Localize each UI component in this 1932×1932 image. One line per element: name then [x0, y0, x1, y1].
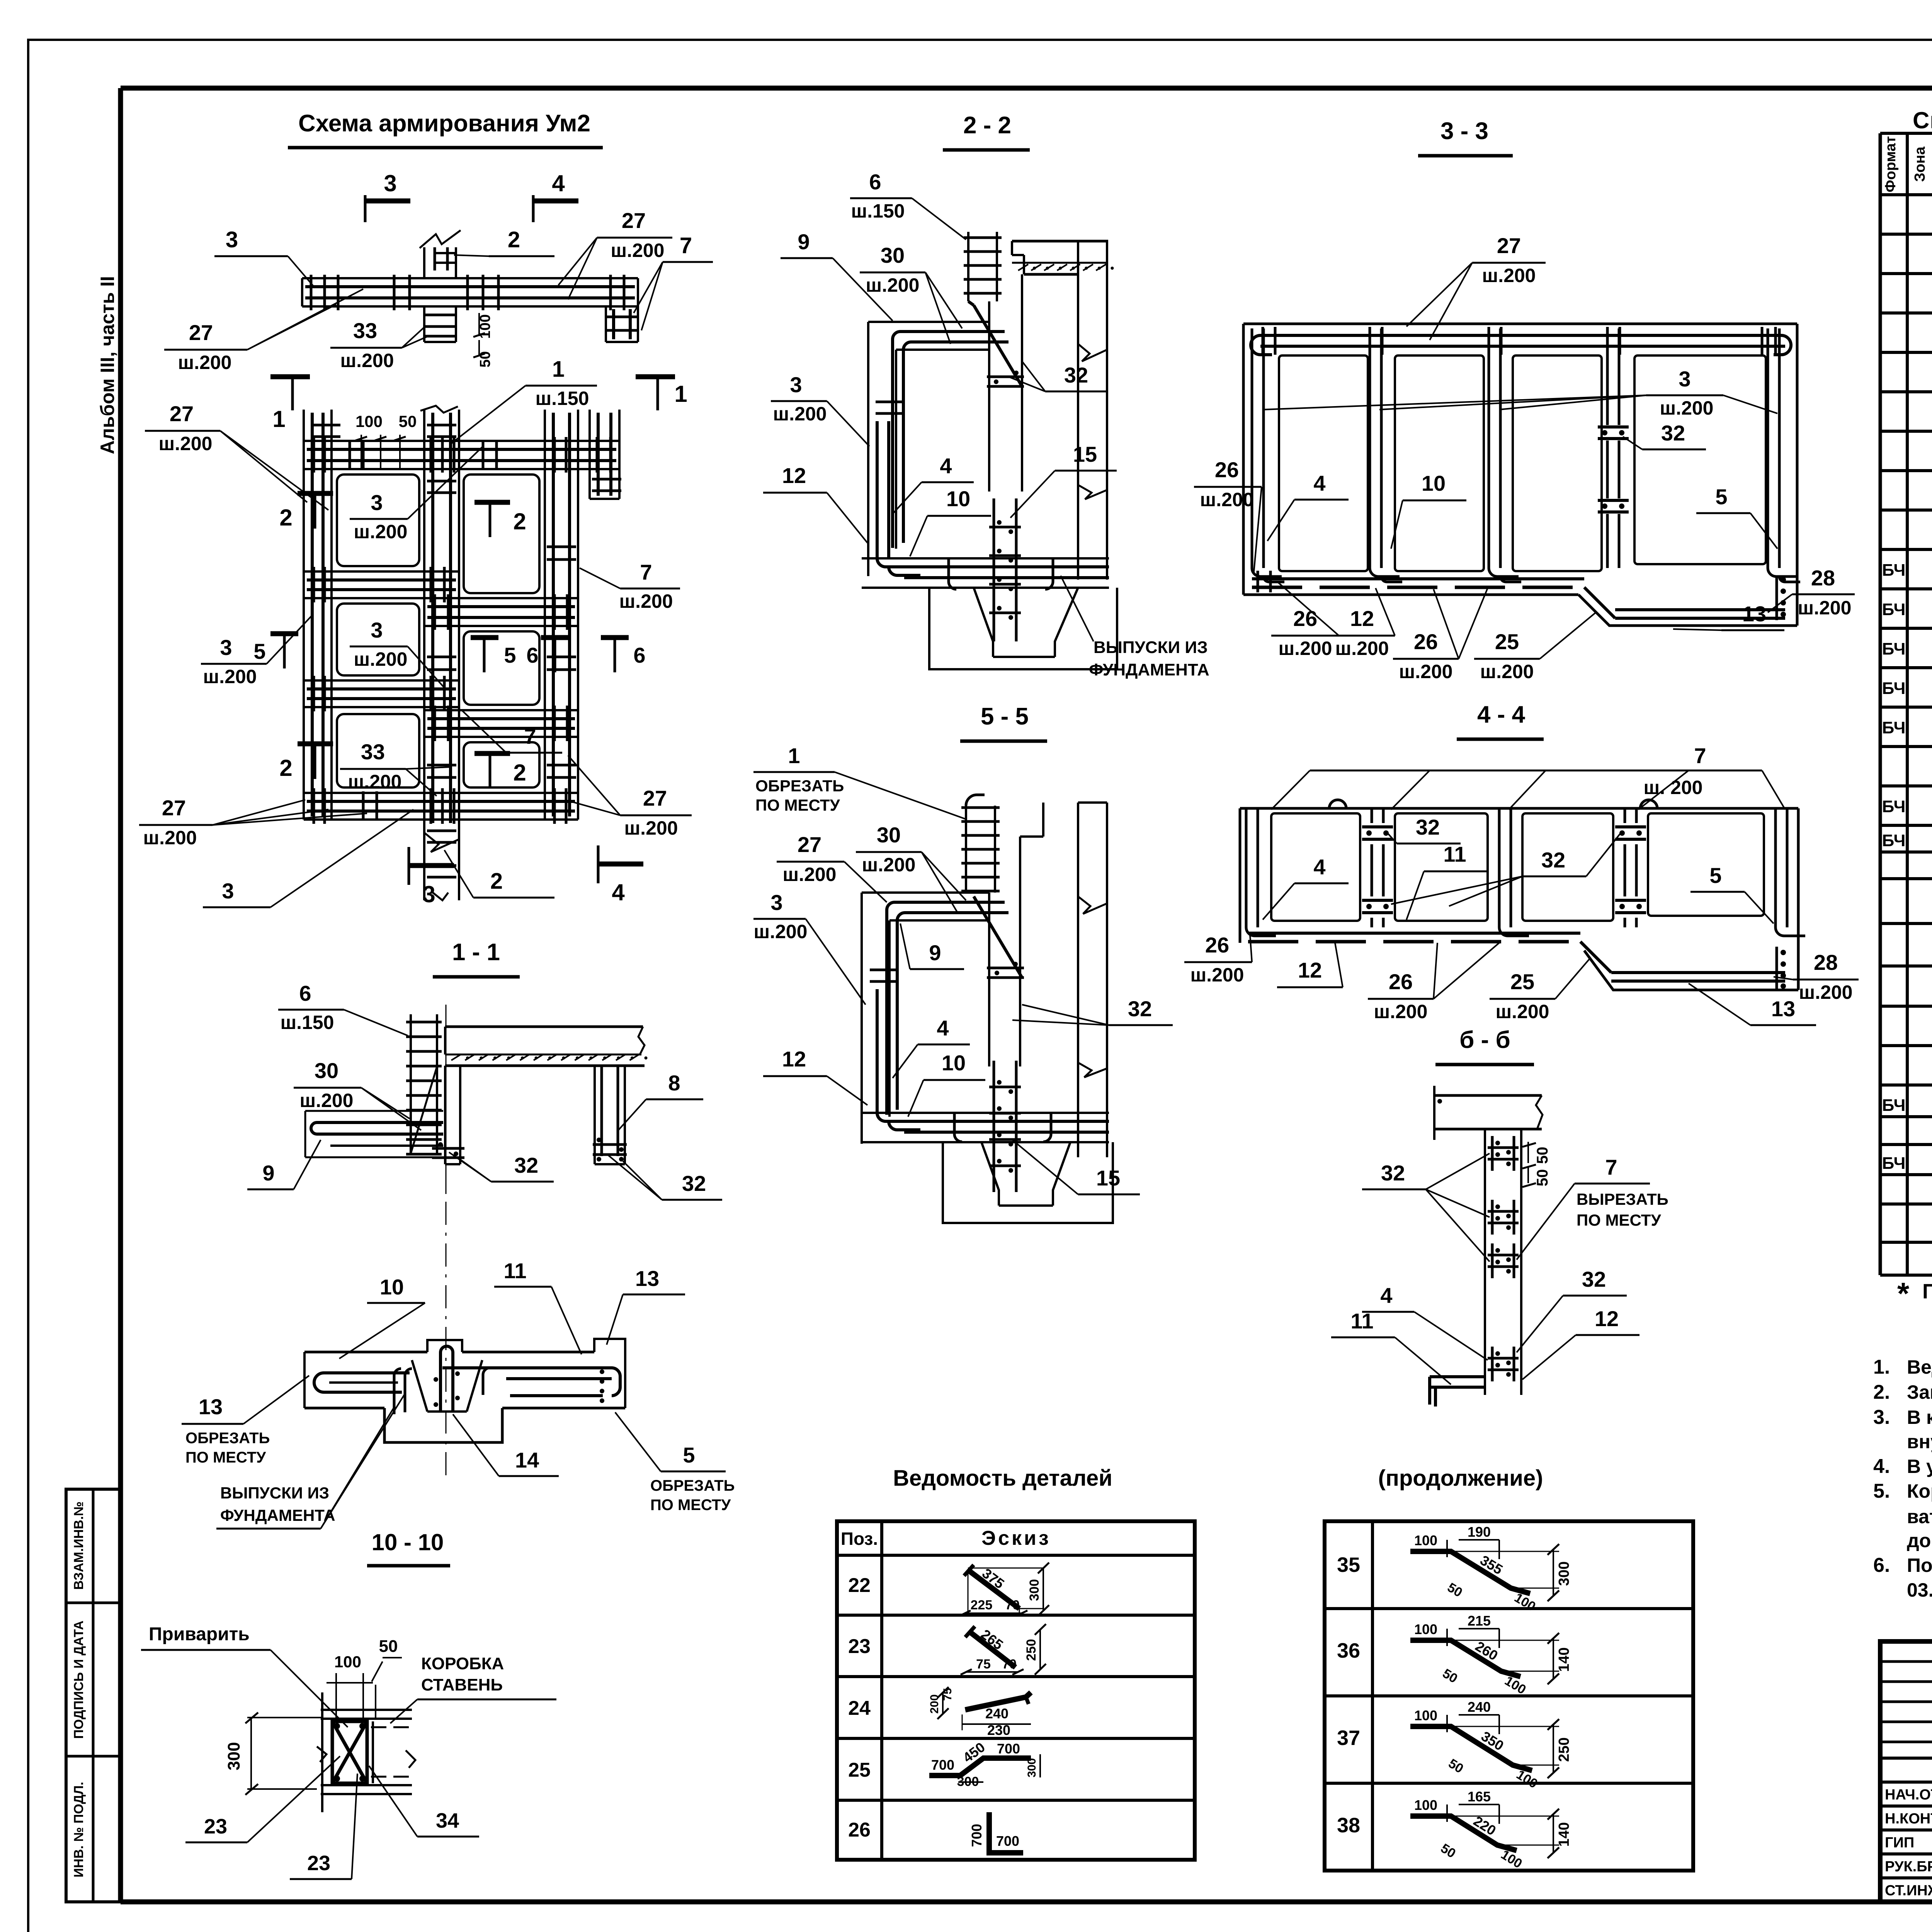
section 2-2 vypuski hooks	[949, 558, 956, 589]
svg-text:200: 200	[928, 1694, 941, 1714]
svg-text:32: 32	[1416, 815, 1440, 839]
svg-text:4 - 4: 4 - 4	[1477, 701, 1526, 728]
svg-text:50: 50	[399, 412, 417, 430]
detail 10-10 X-braced box	[332, 1721, 367, 1783]
svg-text:ш.200: ш.200	[354, 648, 408, 670]
section 3-3 outer boundary	[1243, 323, 1797, 325]
svg-text:36: 36	[1337, 1639, 1360, 1662]
section 5-5 left wall corner	[862, 891, 989, 894]
section mark 5 left	[270, 631, 298, 636]
svg-text:165: 165	[1468, 1789, 1491, 1804]
specification table	[1880, 132, 1932, 135]
svg-text:(продолжение): (продолжение)	[1378, 1466, 1543, 1491]
svg-text:2: 2	[279, 755, 292, 781]
svg-text:28: 28	[1814, 950, 1838, 975]
svg-text:СТАВЕНЬ: СТАВЕНЬ	[421, 1675, 503, 1694]
svg-text:27: 27	[162, 796, 186, 820]
svg-text:ш.200: ш.200	[340, 350, 394, 371]
svg-text:БЧ: БЧ	[1882, 1154, 1906, 1173]
svg-text:2: 2	[490, 869, 503, 894]
svg-text:9: 9	[262, 1161, 274, 1185]
section 2-2 stirrup ladder pos6	[967, 232, 969, 301]
section 2-2 central stirrup pos15	[993, 498, 995, 641]
section 1-1 left wall bottom stirrups 32	[432, 1147, 464, 1150]
svg-text:ОБРЕЗАТЬ: ОБРЕЗАТЬ	[185, 1430, 270, 1447]
section 3-3 bottom right tick column	[1777, 602, 1778, 603]
section 4-4 bottom right dots	[1776, 947, 1778, 989]
svg-text:25: 25	[848, 1759, 871, 1781]
main plan room R3	[464, 742, 539, 787]
svg-text:70: 70	[1005, 1598, 1020, 1612]
svg-text:7: 7	[524, 724, 536, 748]
section 5-5 top stirrup column	[965, 806, 967, 893]
svg-text:140: 140	[1556, 1822, 1572, 1847]
svg-text:27: 27	[622, 208, 646, 233]
svg-text:СТ.ИНЖ.: СТ.ИНЖ.	[1885, 1883, 1932, 1899]
svg-text:30: 30	[315, 1058, 338, 1083]
svg-text:ш.200: ш.200	[1335, 638, 1389, 659]
detail 10-10 left vertical	[321, 1692, 323, 1812]
svg-text:НАЧ.ОТЭП: НАЧ.ОТЭП	[1885, 1787, 1932, 1803]
svg-text:ш.200: ш.200	[624, 817, 678, 839]
svg-text:2: 2	[279, 505, 292, 531]
svg-text:33: 33	[353, 318, 377, 343]
svg-text:Зона: Зона	[1912, 146, 1928, 182]
top fragment small stirrup marks pos2	[434, 252, 457, 254]
section 2-2 corner rebar bars	[893, 332, 900, 548]
svg-text:300: 300	[1556, 1561, 1572, 1586]
section 1-1 central raised box	[427, 1340, 462, 1352]
section 6-6 bottom foot pos11	[1430, 1375, 1485, 1378]
svg-text:4.: 4.	[1873, 1455, 1890, 1478]
svg-text:БЧ: БЧ	[1882, 600, 1906, 619]
section mark 2 right with T	[474, 500, 510, 505]
svg-text:27: 27	[189, 320, 213, 345]
section 2-2 foundation horizontal lines	[862, 557, 1109, 560]
svg-text:4: 4	[1313, 471, 1325, 495]
svg-text:15: 15	[1096, 1166, 1120, 1190]
svg-text:2: 2	[508, 227, 520, 252]
title block	[1880, 1641, 1932, 1902]
section 2-2 foundation pit	[929, 588, 1117, 669]
svg-text:ш.200: ш.200	[348, 771, 402, 793]
svg-text:Поз.: Поз.	[841, 1529, 878, 1549]
svg-text:ш.200: ш.200	[1190, 964, 1244, 986]
section 3-3 rooms	[1279, 355, 1368, 571]
svg-text:ш.200: ш.200	[1200, 489, 1254, 510]
svg-text:300: 300	[1027, 1579, 1042, 1601]
section 1-1 stirrup ladder pos6	[410, 1014, 412, 1153]
section 3-3 bottom bars	[1252, 577, 1584, 580]
svg-text:100: 100	[355, 412, 383, 430]
detail 10-10 rails	[321, 1709, 412, 1711]
svg-text:Ведомость деталей: Ведомость деталей	[893, 1466, 1112, 1491]
section mark 2 left	[298, 491, 333, 496]
svg-text:КОРОБКА: КОРОБКА	[421, 1654, 504, 1673]
sketch poz35	[1410, 1551, 1530, 1594]
svg-text:вать одновременно с монтажо: вать одновременно с монтажом арматуры	[1907, 1506, 1932, 1527]
svg-text:4: 4	[937, 1016, 949, 1040]
svg-text:ВЫПУСКИ ИЗ: ВЫПУСКИ ИЗ	[1094, 638, 1208, 657]
section 5-5 right wall	[1077, 803, 1079, 1157]
svg-text:Приварить: Приварить	[149, 1624, 250, 1645]
svg-text:ВЫРЕЗАТЬ: ВЫРЕЗАТЬ	[1577, 1190, 1668, 1208]
main plan left wall strip	[303, 410, 305, 820]
svg-text:5: 5	[1715, 485, 1727, 509]
svg-text:ш.200: ш.200	[866, 274, 920, 296]
svg-text:12: 12	[1298, 958, 1322, 982]
top fragment wall band horizontal	[302, 277, 638, 279]
svg-text:50: 50	[1534, 1169, 1551, 1187]
section marks 5 6 middle	[471, 635, 498, 640]
svg-text:7: 7	[640, 560, 652, 584]
top fragment section mark 3	[364, 195, 367, 222]
svg-text:30: 30	[877, 823, 901, 847]
detail 10-10 dims 100 50	[335, 1673, 337, 1719]
svg-text:11: 11	[503, 1259, 526, 1283]
svg-text:27: 27	[798, 832, 821, 857]
svg-text:ш.200: ш.200	[1482, 265, 1536, 286]
section 5-5 vypuski hooks	[954, 1113, 962, 1142]
svg-text:ш.200: ш.200	[1480, 661, 1534, 682]
svg-text:22: 22	[848, 1574, 871, 1597]
svg-text:ФУНДАМЕНТА: ФУНДАМЕНТА	[220, 1506, 335, 1524]
svg-text:3: 3	[384, 170, 396, 196]
section mark 3 bottom	[408, 847, 410, 885]
svg-text:24: 24	[848, 1697, 871, 1719]
svg-text:34: 34	[436, 1809, 459, 1832]
label 7 sh200 leader line 4-4	[1310, 770, 1689, 772]
svg-text:10: 10	[942, 1051, 966, 1075]
svg-text:23: 23	[307, 1852, 330, 1875]
section 3-3 posts	[1251, 328, 1253, 568]
svg-text:Альбом III, часть II: Альбом III, часть II	[97, 276, 118, 454]
svg-text:32: 32	[1381, 1161, 1405, 1185]
section 3-3 post4 with stirrups	[1606, 328, 1609, 425]
main plan central strip lower part	[423, 826, 425, 900]
svg-text:ПО МЕСТУ: ПО МЕСТУ	[650, 1497, 731, 1514]
svg-text:ФУНДАМЕНТА: ФУНДАМЕНТА	[1089, 660, 1209, 679]
main plan band right mid2	[424, 709, 578, 711]
svg-text:1: 1	[788, 743, 800, 768]
section 5-5 central stirrup pos15	[993, 1061, 995, 1192]
svg-text:30: 30	[881, 243, 905, 267]
svg-text:2.: 2.	[1873, 1381, 1890, 1403]
sketch poz37	[1410, 1726, 1532, 1770]
sketch poz38	[1410, 1816, 1517, 1850]
svg-text:13: 13	[199, 1395, 223, 1419]
svg-text:*: *	[1897, 1276, 1910, 1311]
left margin stamp boxes	[66, 1489, 121, 1902]
main plan band right mid1	[424, 597, 578, 599]
svg-text:1: 1	[674, 381, 687, 407]
svg-text:10 - 10: 10 - 10	[372, 1529, 444, 1555]
svg-text:3: 3	[422, 881, 435, 907]
svg-text:ш.200: ш.200	[1399, 661, 1453, 682]
main plan room R1	[464, 474, 539, 593]
svg-text:ОБРЕЗАТЬ: ОБРЕЗАТЬ	[755, 777, 844, 795]
svg-text:13: 13	[635, 1266, 659, 1291]
section 1-1 vypuski bars	[394, 1369, 401, 1414]
svg-text:ш.150: ш.150	[281, 1012, 334, 1033]
svg-text:б - б: б - б	[1459, 1027, 1510, 1053]
svg-text:7: 7	[1605, 1155, 1617, 1179]
svg-text:300: 300	[1026, 1758, 1038, 1777]
svg-text:100: 100	[334, 1653, 361, 1671]
svg-text:700: 700	[996, 1833, 1019, 1849]
svg-text:БЧ: БЧ	[1882, 679, 1906, 698]
svg-text:12: 12	[1595, 1306, 1619, 1331]
svg-text:6: 6	[633, 643, 645, 667]
section 1-1 centerline	[446, 1005, 447, 1194]
svg-text:ш.200: ш.200	[1660, 397, 1714, 419]
section 1-1 right wall pos8	[594, 1066, 596, 1164]
svg-text:25: 25	[1510, 969, 1534, 994]
svg-text:27: 27	[170, 401, 194, 426]
section 1-1 console bar pos9	[317, 1121, 443, 1124]
svg-text:БЧ: БЧ	[1882, 718, 1906, 737]
svg-text:ВЗАМ.ИНВ.№: ВЗАМ.ИНВ.№	[71, 1502, 86, 1590]
section 1-1 floor slab	[445, 1026, 643, 1028]
svg-text:26: 26	[1205, 933, 1229, 957]
svg-text:50: 50	[1534, 1147, 1551, 1164]
section 2-2 stirrup marks 32	[987, 376, 1024, 378]
svg-text:32: 32	[1582, 1267, 1606, 1291]
section 2-2 left wall corner	[868, 321, 989, 323]
svg-text:27: 27	[643, 786, 667, 810]
svg-text:3: 3	[226, 227, 238, 252]
svg-text:5: 5	[253, 639, 265, 663]
section 4-4 posts	[1245, 808, 1248, 927]
svg-text:ПО МЕСТУ: ПО МЕСТУ	[185, 1449, 266, 1466]
svg-text:190: 190	[1468, 1524, 1491, 1540]
svg-text:5 - 5: 5 - 5	[981, 703, 1029, 730]
svg-text:100: 100	[1414, 1532, 1437, 1548]
section 5-5 bottom bars	[876, 989, 879, 1113]
svg-text:240: 240	[1468, 1699, 1491, 1715]
svg-text:26: 26	[1293, 606, 1317, 631]
svg-text:В углах арматуру поз. 27 пр: В углах арматуру поз. 27 приварить к сте…	[1907, 1456, 1932, 1477]
section 5-5 central band	[1019, 837, 1021, 1066]
svg-text:12: 12	[1350, 606, 1374, 631]
svg-text:Схема армирования Ум2: Схема армирования Ум2	[298, 110, 590, 137]
svg-text:25: 25	[1495, 629, 1519, 654]
svg-text:ПОДПИСЬ И ДАТА: ПОДПИСЬ И ДАТА	[71, 1621, 86, 1739]
section 5-5 foundation pit	[943, 1142, 1113, 1223]
section 5-5 diagonal bent bar	[974, 896, 1022, 978]
svg-text:700: 700	[931, 1757, 954, 1773]
section mark 6 right	[601, 635, 629, 640]
svg-text:32: 32	[1541, 848, 1565, 872]
prodolzhenie table	[1325, 1521, 1693, 1871]
svg-text:ш.200: ш.200	[143, 827, 197, 849]
section 6-6 column	[1484, 1129, 1486, 1395]
svg-text:4: 4	[552, 170, 565, 196]
main plan bottom band	[304, 792, 578, 794]
svg-text:Н.КОНТР.: Н.КОНТР.	[1885, 1811, 1932, 1827]
svg-text:32: 32	[682, 1171, 706, 1196]
svg-text:100: 100	[1414, 1708, 1437, 1723]
svg-text:4: 4	[612, 879, 625, 905]
top fragment section mark 4	[532, 195, 535, 222]
svg-text:700: 700	[969, 1824, 985, 1847]
svg-text:до бетонирования.: до бетонирования.	[1907, 1530, 1932, 1551]
main plan room L1	[337, 474, 419, 566]
svg-text:1.: 1.	[1873, 1356, 1890, 1378]
svg-text:11: 11	[1350, 1309, 1373, 1333]
svg-text:4: 4	[1380, 1283, 1392, 1308]
svg-text:15: 15	[1073, 442, 1097, 466]
main plan section mark 1 right	[636, 374, 675, 379]
main plan tick groups	[313, 437, 315, 473]
svg-text:300: 300	[224, 1742, 243, 1770]
svg-text:140: 140	[1556, 1647, 1572, 1672]
svg-text:2: 2	[513, 760, 526, 786]
svg-text:6: 6	[869, 170, 881, 194]
svg-text:11: 11	[1443, 842, 1466, 866]
section 2-2 diagonal bent bar	[974, 305, 1022, 386]
svg-text:13: 13	[1771, 997, 1795, 1021]
section 1-1 foundation pit block	[384, 1408, 502, 1442]
svg-text:26: 26	[848, 1819, 871, 1841]
svg-text:215: 215	[1468, 1613, 1491, 1629]
section 4-4 post with stirrups 2	[1371, 808, 1373, 823]
svg-text:ш.150: ш.150	[851, 200, 905, 222]
svg-text:3: 3	[220, 635, 232, 660]
section 3-3 top rebar band	[1260, 334, 1781, 337]
main plan top band	[304, 440, 619, 442]
svg-text:БЧ: БЧ	[1882, 639, 1906, 658]
svg-text:ш. 200: ш. 200	[1644, 777, 1703, 798]
svg-text:Позиции 16 ... 20 (КПК) уста: Позиции 16 ... 20 (КПК) устанавливать по…	[1907, 1554, 1932, 1576]
svg-text:700: 700	[997, 1741, 1020, 1757]
svg-text:ПО МЕСТУ: ПО МЕСТУ	[755, 796, 840, 814]
svg-text:ш.200: ш.200	[354, 521, 408, 543]
section 1-1 right portion rebar pos11	[442, 1366, 612, 1369]
svg-text:3: 3	[371, 490, 383, 515]
main plan room R2	[464, 631, 539, 705]
main plan right wall strip	[544, 410, 546, 820]
top fragment central column	[423, 247, 425, 278]
svg-text:3 - 3: 3 - 3	[1440, 118, 1488, 145]
sketch poz23	[969, 1631, 1015, 1667]
section 3-3 bottom hooks left	[1257, 571, 1259, 592]
svg-text:ш.200: ш.200	[203, 666, 257, 687]
sketch poz22	[968, 1570, 1019, 1609]
section mark 2 bottom-left	[298, 742, 333, 747]
top fragment band ticks	[310, 275, 313, 310]
svg-text:32: 32	[1661, 421, 1685, 445]
main plan far right leg	[588, 410, 591, 499]
svg-text:Ведомость расхода стали см.: Ведомость расхода стали см. лист 42.	[1907, 1356, 1932, 1378]
svg-text:9: 9	[798, 230, 810, 254]
section 2-2 right wall	[1077, 241, 1079, 580]
svg-text:75: 75	[941, 1688, 954, 1701]
svg-text:13: 13	[1742, 602, 1766, 626]
svg-text:6: 6	[299, 981, 311, 1005]
section 5-5 corner rebar bars	[887, 902, 895, 1115]
sketch poz24	[965, 1692, 1031, 1710]
svg-text:3: 3	[790, 372, 802, 397]
section mark 2 bottom-right	[474, 751, 510, 756]
svg-text:10: 10	[946, 486, 970, 511]
svg-text:70: 70	[1002, 1657, 1017, 1672]
svg-text:32: 32	[1128, 997, 1152, 1021]
section 2-2 bottom bars	[876, 401, 902, 403]
svg-text:ш.200: ш.200	[611, 240, 665, 261]
svg-text:ИНВ. № ПОДЛ.: ИНВ. № ПОДЛ.	[71, 1782, 86, 1878]
svg-text:БЧ: БЧ	[1882, 797, 1906, 816]
svg-text:35: 35	[1337, 1553, 1360, 1577]
main plan section mark 1 left	[270, 374, 310, 379]
section 4-4 bottom bars	[1248, 932, 1580, 935]
section 4-4 top line pos7	[1240, 807, 1798, 810]
svg-text:4: 4	[1313, 855, 1325, 879]
svg-text:ГИП: ГИП	[1885, 1835, 1914, 1851]
svg-text:ш.200: ш.200	[159, 433, 213, 454]
svg-text:2 - 2: 2 - 2	[963, 112, 1011, 139]
main plan band left mid2	[304, 679, 459, 682]
svg-text:БЧ: БЧ	[1882, 561, 1906, 580]
svg-text:1 - 1: 1 - 1	[452, 939, 500, 966]
svg-text:75: 75	[976, 1657, 991, 1672]
svg-text:2: 2	[513, 509, 526, 534]
svg-text:ш.200: ш.200	[1496, 1001, 1549, 1022]
svg-text:Эскиз: Эскиз	[981, 1527, 1051, 1549]
svg-text:26: 26	[1215, 457, 1239, 482]
svg-text:ш.200: ш.200	[1798, 597, 1852, 619]
svg-text:ш.200: ш.200	[619, 590, 673, 612]
section 5-5 foundation lines	[862, 1112, 1109, 1114]
svg-text:8: 8	[668, 1071, 680, 1095]
svg-text:Позиции 22 ... 26, 35 ... 38: Позиции 22 ... 26, 35 ... 38 см. ведомос…	[1922, 1280, 1932, 1303]
detail 10-10 dim 300	[250, 1718, 252, 1789]
svg-text:100: 100	[1414, 1621, 1437, 1637]
svg-text:ш.150: ш.150	[536, 388, 589, 409]
svg-text:38: 38	[1337, 1814, 1360, 1837]
main plan band left mid1	[304, 570, 459, 573]
inner drawing frame	[121, 86, 1932, 91]
svg-text:3.: 3.	[1873, 1406, 1890, 1429]
section 4-4 rooms	[1271, 813, 1360, 921]
svg-text:6: 6	[526, 643, 538, 667]
svg-text:ш.200: ш.200	[754, 921, 808, 942]
svg-text:240: 240	[985, 1706, 1009, 1721]
svg-text:ш.200: ш.200	[1279, 638, 1332, 659]
section mark 4 bottom	[597, 845, 600, 883]
svg-text:ш.200: ш.200	[862, 854, 916, 876]
section 6-6 stirrup boxes pos32	[1491, 1136, 1494, 1171]
svg-text:В каркасах поз. 3 стержни б: В каркасах поз. 3 стержни большего диаме…	[1907, 1406, 1932, 1428]
svg-text:5: 5	[504, 643, 516, 667]
svg-text:225: 225	[971, 1598, 993, 1612]
svg-text:ш.200: ш.200	[300, 1090, 354, 1111]
top fragment right leg	[605, 306, 607, 342]
svg-text:10: 10	[380, 1275, 404, 1299]
svg-text:32: 32	[1064, 363, 1088, 387]
svg-text:6.: 6.	[1873, 1554, 1890, 1577]
svg-text:23: 23	[848, 1635, 871, 1658]
section 1-1 foundation band top edge	[304, 1351, 427, 1354]
svg-text:250: 250	[1024, 1639, 1039, 1661]
sketch poz36	[1410, 1640, 1520, 1677]
svg-text:33: 33	[361, 740, 385, 764]
svg-text:1: 1	[552, 357, 565, 382]
section 1-1 central stirrup pos14	[440, 1346, 453, 1410]
svg-text:Формат: Формат	[1883, 136, 1899, 192]
svg-text:4: 4	[940, 454, 952, 478]
svg-text:5: 5	[1709, 863, 1721, 888]
